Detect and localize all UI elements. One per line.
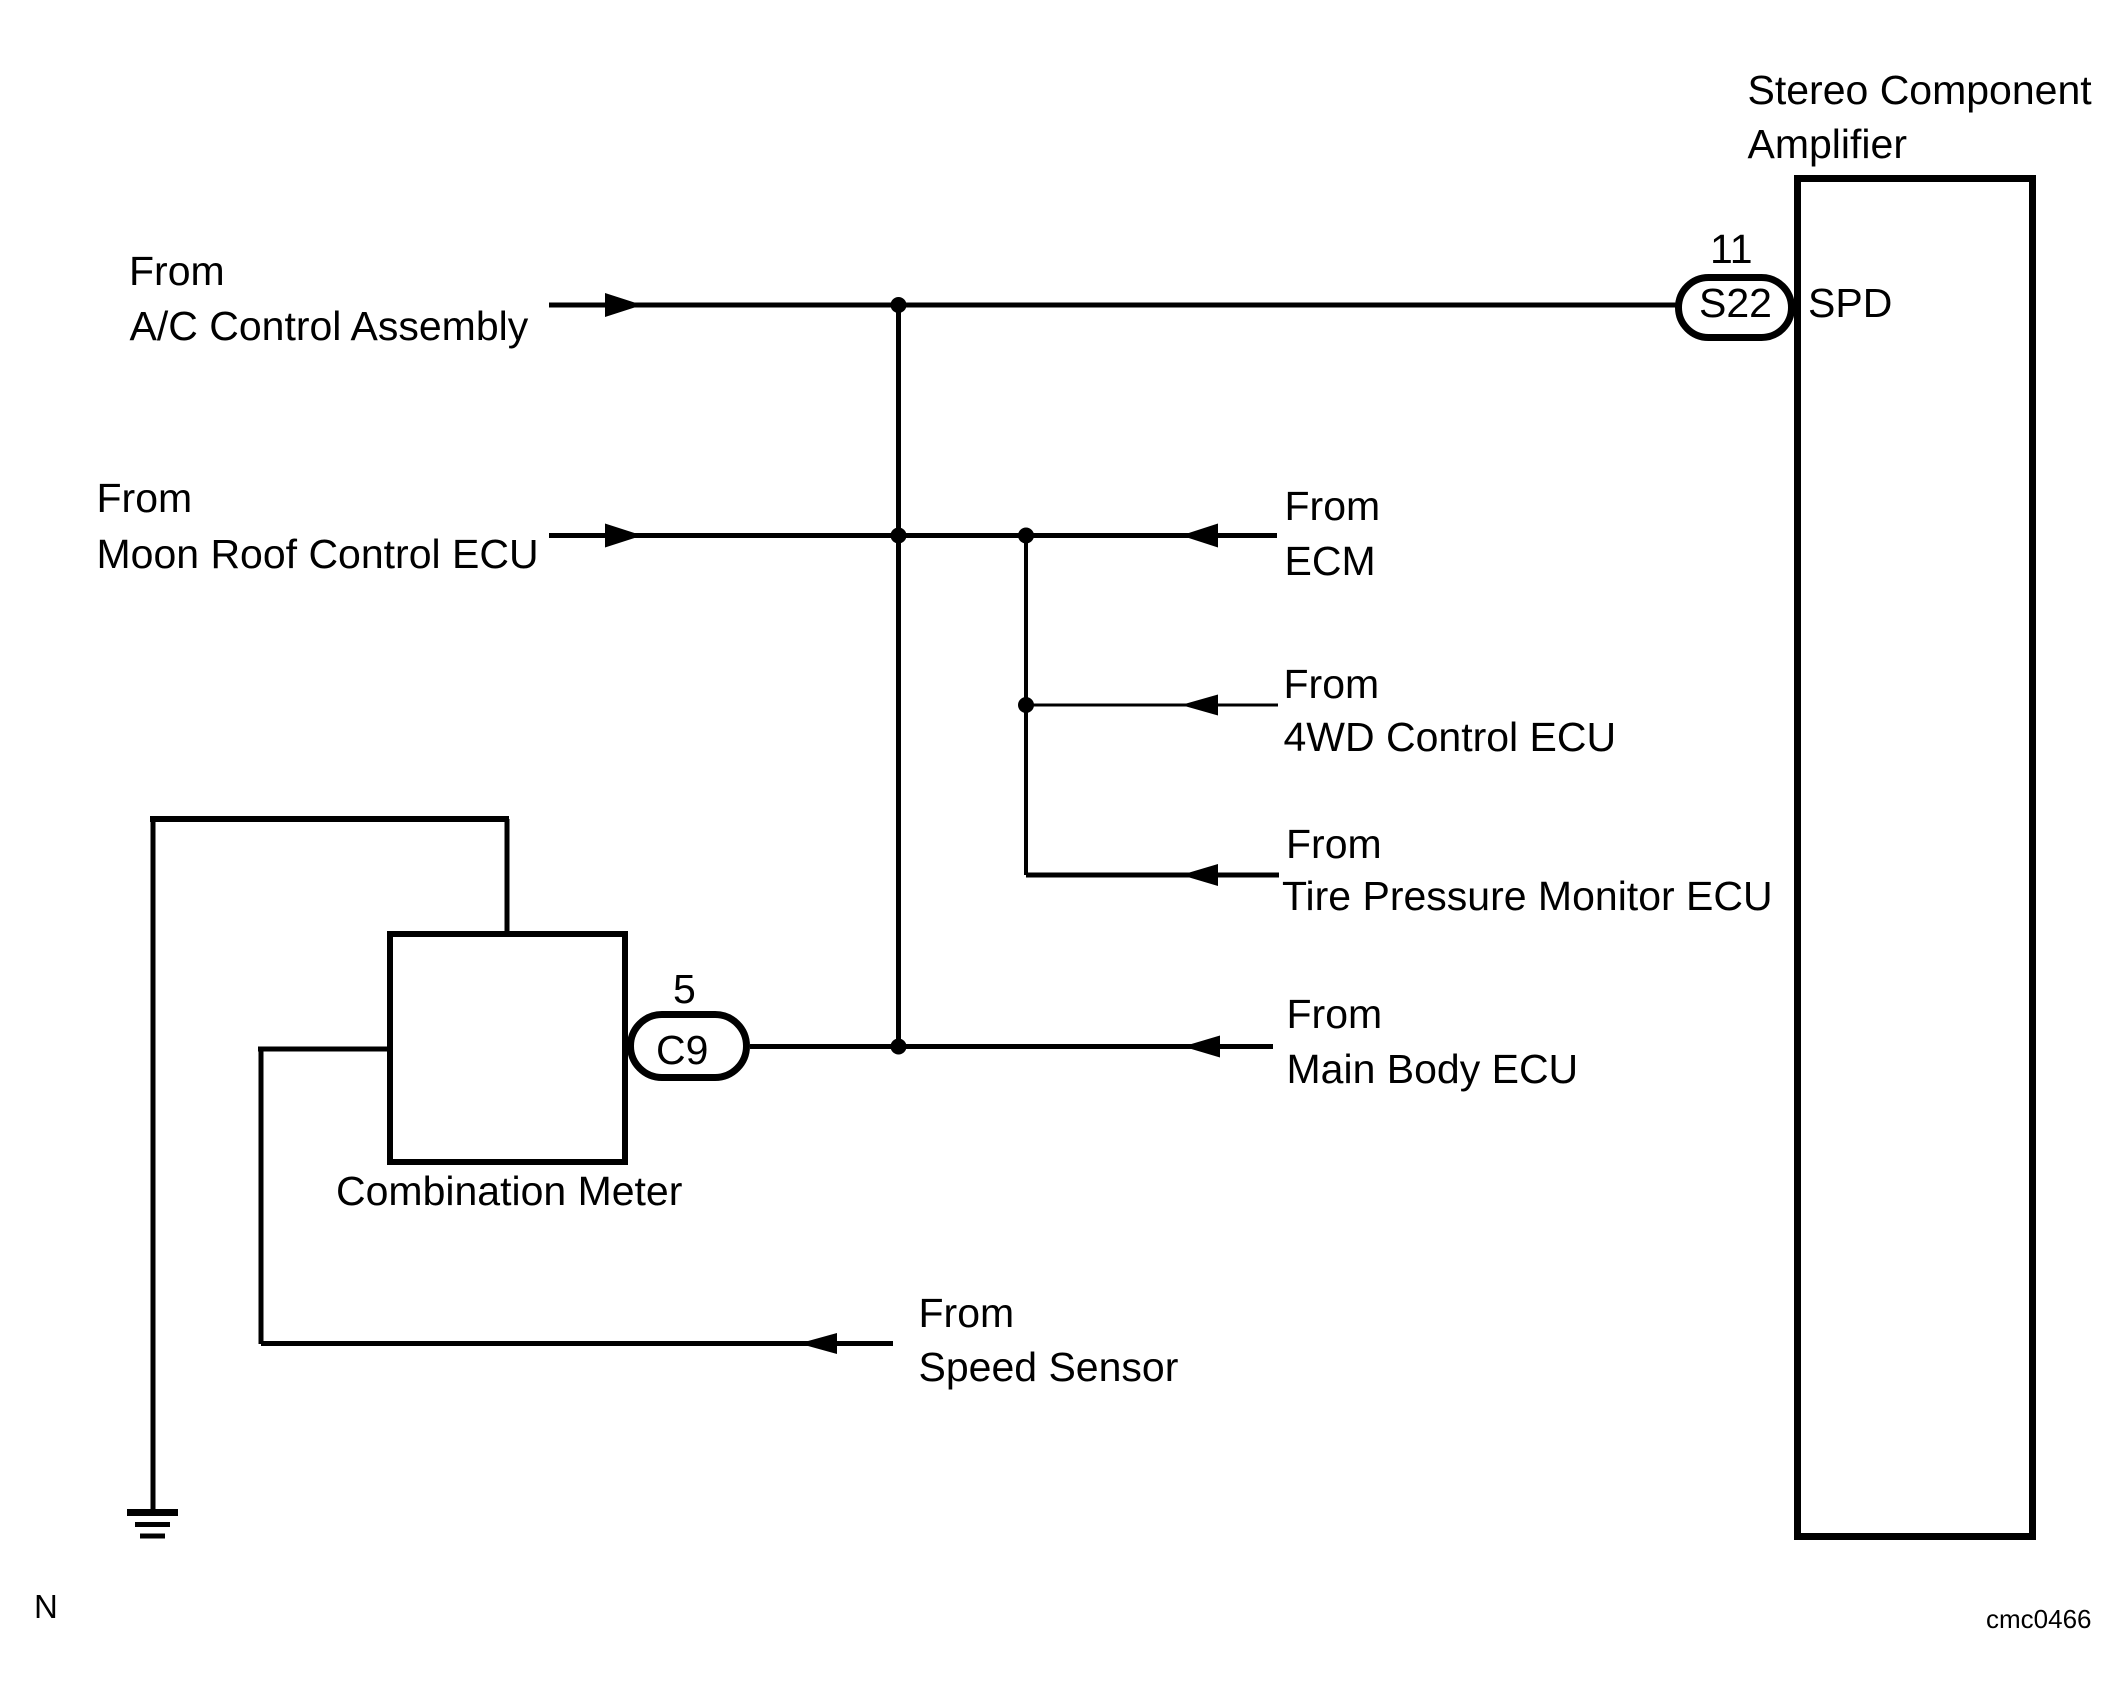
svg-text:From: From (1286, 821, 1382, 867)
svg-text:Combination Meter: Combination Meter (336, 1168, 682, 1214)
svg-text:S22: S22 (1699, 280, 1772, 326)
svg-text:Amplifier: Amplifier (1748, 121, 1907, 167)
svg-text:From: From (97, 475, 193, 521)
svg-text:11: 11 (1710, 226, 1753, 272)
svg-text:SPD: SPD (1808, 280, 1892, 326)
svg-text:4WD Control ECU: 4WD Control ECU (1284, 714, 1617, 760)
svg-text:From: From (1285, 483, 1381, 529)
svg-text:Main Body ECU: Main Body ECU (1287, 1046, 1579, 1092)
svg-text:Tire Pressure Monitor ECU: Tire Pressure Monitor ECU (1282, 873, 1773, 919)
svg-text:cmc0466: cmc0466 (1986, 1604, 2092, 1634)
svg-text:N: N (34, 1588, 58, 1625)
svg-text:ECM: ECM (1285, 538, 1376, 584)
svg-text:From: From (1284, 661, 1380, 707)
svg-text:From: From (129, 248, 225, 294)
svg-text:5: 5 (673, 966, 696, 1012)
svg-text:From: From (919, 1290, 1015, 1336)
svg-text:Stereo Component: Stereo Component (1748, 67, 2093, 113)
svg-text:C9: C9 (656, 1027, 708, 1073)
svg-text:Moon Roof Control ECU: Moon Roof Control ECU (97, 531, 539, 577)
svg-text:Speed Sensor: Speed Sensor (919, 1344, 1179, 1390)
svg-text:A/C Control Assembly: A/C Control Assembly (130, 303, 529, 349)
svg-text:From: From (1287, 991, 1383, 1037)
